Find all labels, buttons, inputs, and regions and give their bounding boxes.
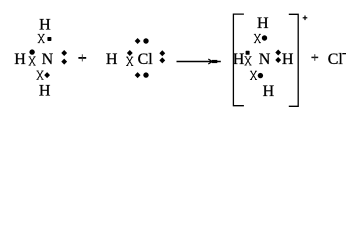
lone pair top-left dot (Cl) <box>135 38 141 44</box>
lone pair dot lower (N) <box>61 59 67 65</box>
svg-text:H: H <box>263 83 275 100</box>
plus sign between products <box>311 54 318 61</box>
left bracket <box>233 14 244 106</box>
svg-text:N: N <box>259 51 271 68</box>
lone pair right-upper dot (Cl) <box>159 50 165 56</box>
svg-text:H: H <box>106 51 118 68</box>
bond pair cross (N-Hbottom NH4) <box>250 71 257 80</box>
right bracket <box>289 14 298 106</box>
bond pair dot (N-Hbottom) <box>44 72 50 78</box>
svg-text:H: H <box>257 15 269 32</box>
bond pair cross (N-Hbottom) <box>36 71 43 80</box>
lone pair bottom-left dot (Cl) <box>135 72 141 78</box>
reaction arrow <box>177 59 221 64</box>
svg-text:H: H <box>39 83 51 100</box>
bond pair dot (N-Hleft NH4) <box>246 51 250 55</box>
bond pair cross (N-Hleft) <box>29 57 36 66</box>
bond pair dot (N-Hbottom NH4) <box>258 73 263 78</box>
bond pair cross (N-Htop) <box>38 34 45 43</box>
lone pair dot upper (N) <box>61 50 67 56</box>
lone pair right-lower dot (Cl) <box>159 57 165 63</box>
bond pair cross (H-Cl) <box>126 57 133 66</box>
bond pair dot (N-Hleft) <box>29 49 34 54</box>
bond pair dot (H-Cl) <box>127 50 133 56</box>
svg-text:H: H <box>233 51 245 68</box>
bond pair dot (N-Htop NH4) <box>262 35 267 40</box>
bond pair cross (N-Hleft NH4) <box>244 57 251 66</box>
svg-text:H: H <box>282 51 294 68</box>
lone pair top-right dot (Cl) <box>143 38 148 43</box>
plus sign between reactants <box>78 54 86 61</box>
svg-text:Cl: Cl <box>138 51 154 68</box>
superscript plus charge <box>303 16 308 21</box>
superscript minus charge <box>342 53 346 54</box>
bond pair cross (N-Htop NH4) <box>254 34 261 43</box>
svg-text:Cl: Cl <box>328 51 344 68</box>
svg-text:H: H <box>14 51 26 68</box>
bond pair dot (N-Htop) <box>47 37 51 41</box>
svg-text:H: H <box>39 17 51 34</box>
dative pair lower dot (N-Hright NH4) <box>275 57 281 63</box>
dative pair upper dot (N-Hright NH4) <box>275 50 281 56</box>
lone pair bottom-right dot (Cl) <box>143 72 148 77</box>
svg-text:N: N <box>42 51 54 68</box>
